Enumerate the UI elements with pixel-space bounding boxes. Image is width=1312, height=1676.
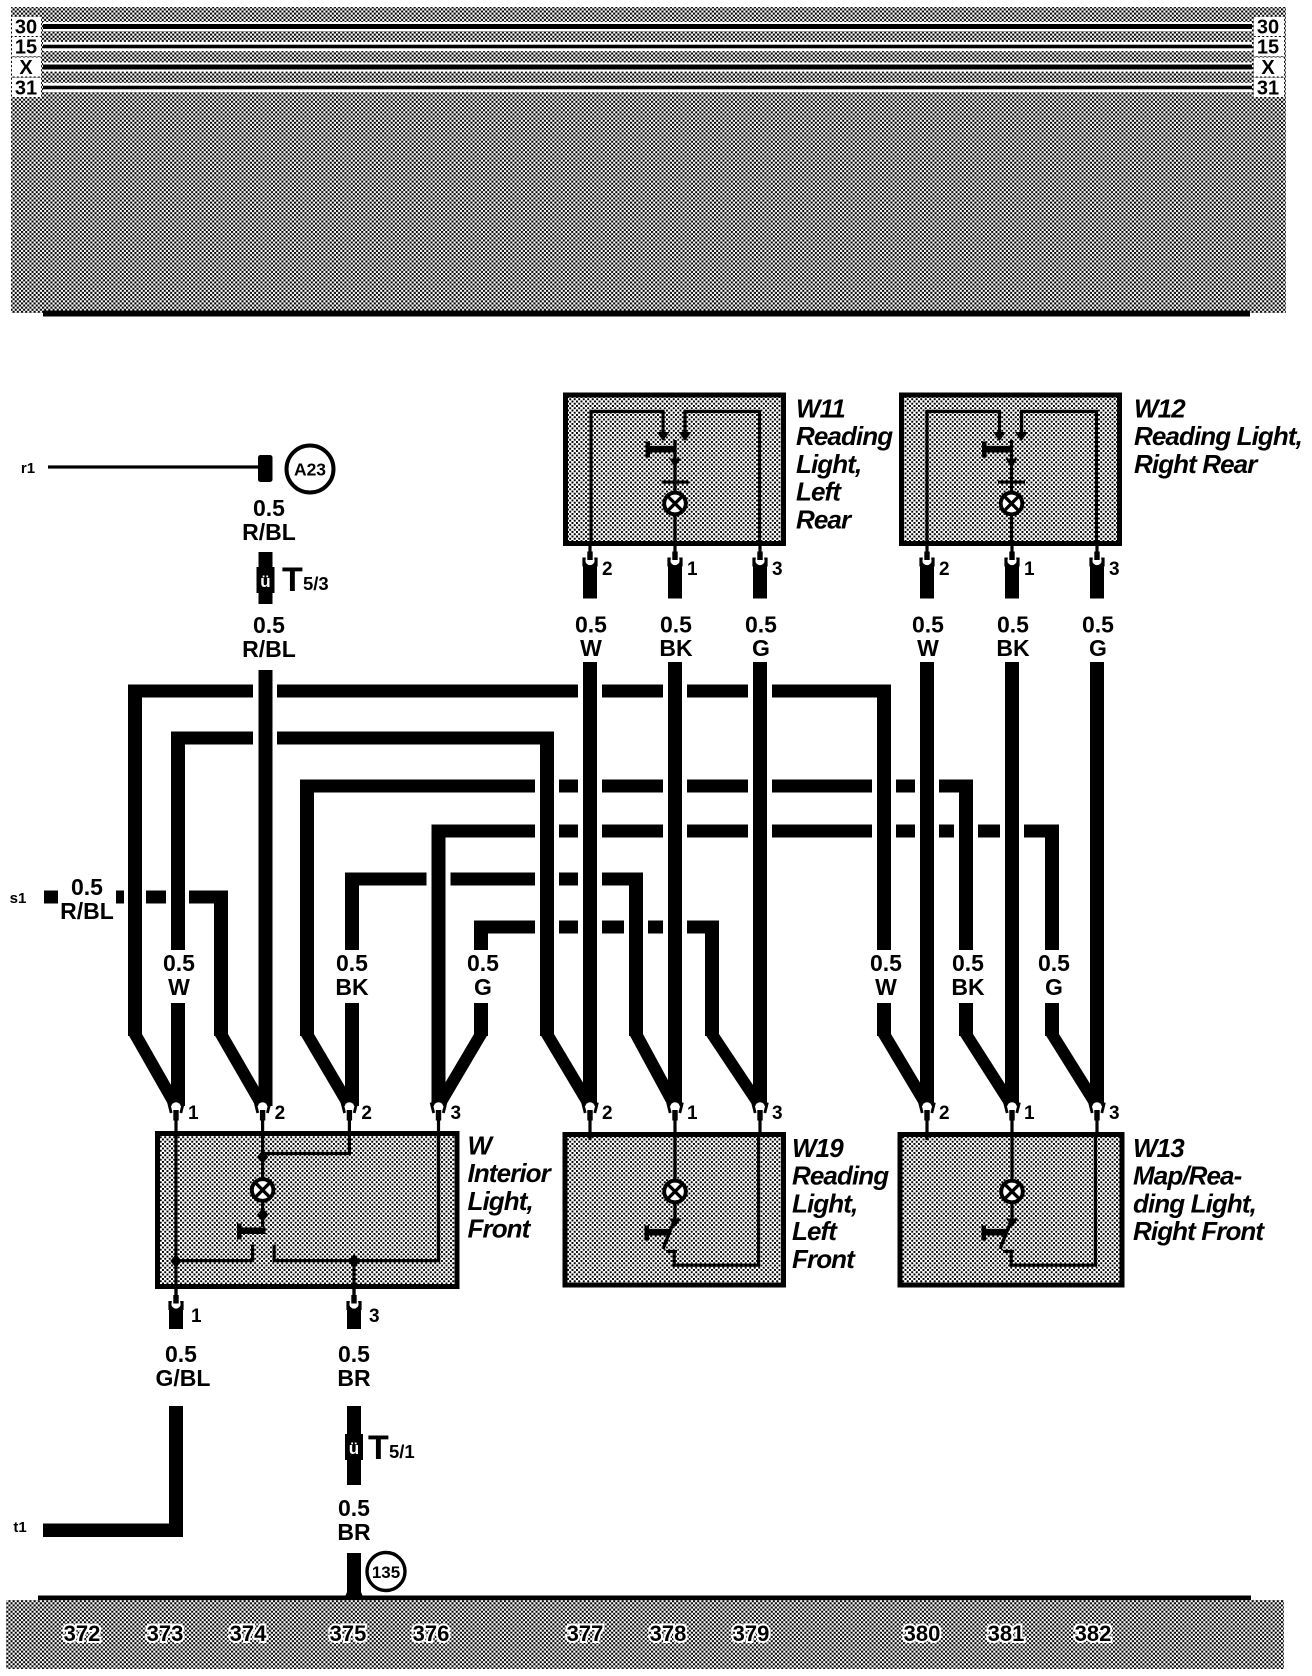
svg-text:0.5: 0.5 — [575, 612, 607, 638]
terminal label 31 (right) — [1254, 78, 1284, 97]
svg-text:15: 15 — [1257, 37, 1279, 59]
svg-text:30: 30 — [1257, 17, 1279, 39]
W19 lower contact — [666, 1250, 677, 1253]
wire B left vertical (label 0.5 W) straight into W pin 1 — [171, 732, 185, 951]
svg-text:3: 3 — [1109, 1103, 1120, 1124]
W internal: bottom rail left — [174, 1259, 254, 1262]
svg-text:381: 381 — [988, 1621, 1025, 1646]
pin 2 connector below lamp box at x=590 — [583, 563, 597, 599]
wire W11 pin2 - W19 pin2 (0.5 W) — [583, 662, 597, 1106]
pin 3 connector below lamp box at x=1097 — [1090, 563, 1104, 599]
pin 2 connector at x=262.6 — [258, 1102, 268, 1112]
wire W12 pin1 - W13 pin1 (0.5 BK) — [1005, 662, 1019, 1106]
svg-text:W: W — [580, 635, 602, 661]
svg-text:0.5: 0.5 — [165, 1341, 197, 1367]
svg-text:T: T — [368, 1429, 389, 1467]
svg-text:T: T — [282, 561, 303, 599]
svg-text:379: 379 — [733, 1621, 770, 1646]
pin 2 connector at x=927 — [922, 1102, 932, 1112]
wire W11 pin3 - W19 pin3 (0.5 G) — [753, 662, 767, 1106]
svg-text:Reading: Reading — [796, 421, 893, 451]
svg-text:Front: Front — [468, 1214, 532, 1244]
svg-text:0.5: 0.5 — [71, 874, 103, 900]
W internal: pin1-bottom lead — [174, 1262, 177, 1298]
svg-text:Reading: Reading — [792, 1161, 889, 1191]
svg-text:G: G — [474, 974, 492, 1000]
lamp unit W11 box — [566, 395, 784, 544]
svg-text:30: 30 — [15, 17, 37, 39]
wire E right vertical + angle into W19 pin 1 — [629, 873, 643, 1037]
svg-text:2: 2 — [939, 1103, 950, 1124]
lamp unit W12 box — [902, 395, 1120, 544]
track band top line — [38, 1596, 1251, 1601]
svg-text:135: 135 — [372, 1563, 400, 1582]
W19 lamp feed — [673, 1136, 676, 1182]
svg-text:G: G — [1045, 974, 1063, 1000]
svg-text:2: 2 — [275, 1103, 286, 1124]
wire 0.5 R/BL vertical from T5/3 into W pin 2 — [259, 670, 273, 1106]
svg-text:0.5: 0.5 — [1082, 612, 1114, 638]
pin 3 connector at x=760 — [755, 1102, 765, 1112]
lamp symbol W11 — [664, 493, 686, 515]
svg-text:W: W — [168, 974, 190, 1000]
wire F left vertical (label 0.5 G) + angle into W pin 3 — [474, 921, 488, 951]
band bottom border — [43, 311, 1250, 317]
svg-text:Light,: Light, — [792, 1188, 857, 1218]
svg-text:0.5: 0.5 — [997, 612, 1029, 638]
pin 1 connector below lamp box at x=675 — [668, 563, 682, 599]
pin 1 connector at x=675 — [670, 1102, 680, 1112]
W internal: pin1 drop — [174, 1136, 177, 1262]
terminal label 15 (left) — [12, 37, 41, 56]
W internal: lamp feed from pin 2 — [261, 1136, 264, 1227]
wire E left vertical (label 0.5 BK) straight into W pin 2 — [345, 873, 359, 951]
inline connector (r1 / A23) — [258, 455, 273, 482]
svg-text:R/BL: R/BL — [60, 898, 114, 924]
svg-text:378: 378 — [650, 1621, 687, 1646]
svg-text:W: W — [917, 635, 939, 661]
svg-text:Interior: Interior — [468, 1158, 553, 1188]
W internal: pin3 drop — [437, 1136, 440, 1262]
pin 2 connector below lamp box at x=927 — [920, 563, 934, 599]
W12 lamp feed wire — [1010, 440, 1013, 544]
svg-text:0.5: 0.5 — [338, 1495, 370, 1521]
wire W11 pin1 - W19 pin1 (0.5 BK) — [668, 662, 682, 1106]
terminal label 30 (right) — [1254, 17, 1284, 36]
svg-text:375: 375 — [330, 1621, 367, 1646]
svg-text:ding Light,: ding Light, — [1133, 1188, 1256, 1218]
svg-text:1: 1 — [1024, 559, 1035, 580]
s1 wire vertical + angle into W pin 2 — [214, 891, 228, 1037]
svg-text:W: W — [875, 974, 897, 1000]
ground point label 135 — [367, 1553, 405, 1591]
wire 0.5 BK (W pin2 - W13 pin1) horizontal run — [300, 780, 535, 793]
wire 0.5 BK (W pin2 - W19 pin1) horizontal run — [345, 873, 427, 886]
W internal: pin3-bottom junction — [348, 1254, 360, 1268]
wire F right vertical + angle into W19 pin 3 — [705, 921, 719, 1037]
bus line 30 — [43, 22, 1252, 31]
svg-text:G/BL: G/BL — [156, 1365, 211, 1391]
terminal label X (right) — [1254, 58, 1284, 77]
svg-text:R/BL: R/BL — [242, 636, 296, 662]
svg-text:5/3: 5/3 — [303, 573, 329, 594]
svg-text:0.5: 0.5 — [338, 1341, 370, 1367]
wire A left vertical + angle into W pin 1 — [128, 685, 142, 1037]
svg-text:2: 2 — [602, 559, 613, 580]
wire C right vertical (label 0.5 BK) + angle into W13 pin 1 — [959, 780, 973, 951]
W pin 1 bottom connector — [169, 1306, 183, 1329]
W13 switch blade — [1000, 1221, 1011, 1249]
svg-text:X: X — [19, 57, 33, 79]
svg-text:BR: BR — [337, 1519, 371, 1545]
svg-text:3: 3 — [772, 559, 783, 580]
W13 link to pin 3 — [1009, 1264, 1097, 1267]
svg-text:Left: Left — [792, 1216, 838, 1246]
svg-text:0.5: 0.5 — [253, 495, 285, 521]
svg-text:t1: t1 — [13, 1519, 26, 1536]
svg-text:1: 1 — [188, 1103, 199, 1124]
svg-text:BK: BK — [996, 635, 1030, 661]
W11 switch contact bar — [647, 446, 674, 453]
wire D right vertical (label 0.5 G) + angle into W13 pin 3 — [1045, 825, 1059, 951]
svg-text:ü: ü — [260, 572, 270, 591]
svg-text:Reading Light,: Reading Light, — [1134, 421, 1302, 451]
power rail band (top) — [11, 7, 1286, 313]
wire 0.5 G (W pin3 - W13 pin3) horizontal run — [432, 825, 536, 838]
W internal: bottom rail right — [273, 1259, 441, 1262]
bus line 15 — [43, 42, 1252, 51]
svg-text:Right Front: Right Front — [1133, 1216, 1265, 1246]
svg-text:Front: Front — [792, 1244, 856, 1274]
svg-text:1: 1 — [687, 559, 698, 580]
svg-text:0.5: 0.5 — [253, 612, 285, 638]
lamp symbol W19 — [664, 1181, 686, 1203]
svg-text:0.5: 0.5 — [1038, 950, 1070, 976]
svg-text:3: 3 — [451, 1103, 462, 1124]
svg-text:2: 2 — [939, 559, 950, 580]
svg-text:0.5: 0.5 — [952, 950, 984, 976]
svg-text:BK: BK — [335, 974, 369, 1000]
wire 0.5 BR upper segment — [347, 1406, 361, 1485]
svg-text:Right Rear: Right Rear — [1134, 449, 1259, 479]
pin 3 connector below lamp box at x=760 — [753, 563, 767, 599]
label A23 circle — [287, 446, 334, 493]
svg-text:382: 382 — [1075, 1621, 1112, 1646]
svg-text:31: 31 — [1257, 78, 1279, 100]
bus line X — [43, 62, 1252, 71]
svg-text:0.5: 0.5 — [163, 950, 195, 976]
W19 pin2 stub — [588, 1136, 591, 1140]
pin 1 connector at x=1012 — [1007, 1102, 1017, 1112]
wire W12 pin2 - W13 pin2 (0.5 W) — [920, 662, 934, 1106]
svg-text:0.5: 0.5 — [467, 950, 499, 976]
svg-text:374: 374 — [230, 1621, 267, 1646]
W switch contact bar — [239, 1228, 266, 1235]
reading light W13 box — [900, 1135, 1122, 1286]
wire C left vertical + angle into W pin 2 — [300, 780, 314, 1037]
wire 0.5 G/BL to t1 — [169, 1406, 183, 1537]
pin 1 connector at x=176 — [171, 1102, 181, 1112]
lamp symbol W — [252, 1179, 274, 1201]
wire 0.5 W (W pin1 - W19 pin2) horizontal run — [171, 732, 253, 745]
pin 2 connector at x=590 — [585, 1102, 595, 1112]
svg-text:Left: Left — [796, 477, 842, 507]
svg-text:0.5: 0.5 — [912, 612, 944, 638]
svg-text:BK: BK — [951, 974, 985, 1000]
bus line 31 — [43, 83, 1252, 92]
svg-text:G: G — [1089, 635, 1107, 661]
connector T5/1 — [345, 1434, 363, 1460]
wire W12 pin3 - W13 pin3 (0.5 G) — [1090, 662, 1104, 1106]
svg-text:372: 372 — [64, 1621, 101, 1646]
svg-text:W13: W13 — [1133, 1133, 1185, 1163]
wire r1 to connector — [48, 465, 260, 468]
W13 lamp feed — [1010, 1136, 1013, 1182]
svg-text:s1: s1 — [10, 890, 27, 907]
W12 switch contact bar — [984, 446, 1011, 453]
pin 3 connector at x=1097 — [1092, 1102, 1102, 1112]
W11 internal wiring — [589, 410, 592, 544]
W11 lamp feed wire — [673, 440, 676, 544]
svg-text:A23: A23 — [294, 460, 326, 480]
reading light W19 box — [565, 1135, 784, 1286]
terminal label X (left) — [12, 58, 41, 77]
svg-text:W12: W12 — [1134, 394, 1186, 424]
wire A right vertical (label 0.5 W) + angle into W13 pin 2 — [877, 685, 891, 951]
svg-text:Light,: Light, — [796, 449, 861, 479]
pin 3 connector at x=438.5 — [434, 1102, 444, 1112]
wire 0.5 G (W pin3 - W19 pin3) horizontal run — [474, 921, 535, 934]
svg-text:0.5: 0.5 — [660, 612, 692, 638]
W19 link to pin 3 — [672, 1264, 760, 1267]
svg-text:0.5: 0.5 — [336, 950, 368, 976]
pin 2 connector at x=349.4 — [345, 1102, 355, 1112]
wire 0.5 R/BL from s1 (interrupted) — [44, 891, 58, 904]
svg-text:377: 377 — [567, 1621, 604, 1646]
terminal label 30 (left) — [12, 17, 41, 36]
pin 1 connector below lamp box at x=1012 — [1005, 563, 1019, 599]
svg-text:BK: BK — [659, 635, 693, 661]
W pin 3 bottom connector — [347, 1306, 361, 1329]
svg-text:Map/Rea-: Map/Rea- — [1133, 1161, 1242, 1191]
W13 lower contact — [1003, 1250, 1014, 1253]
W internal: top link pin2-pin2 — [263, 1152, 351, 1155]
svg-text:2: 2 — [602, 1103, 613, 1124]
lamp symbol W12 — [1001, 493, 1023, 515]
svg-text:ü: ü — [349, 1439, 359, 1458]
W12 internal wiring — [925, 410, 928, 544]
svg-text:3: 3 — [1109, 559, 1120, 580]
svg-text:2: 2 — [361, 1103, 372, 1124]
svg-text:380: 380 — [904, 1621, 941, 1646]
svg-text:5/1: 5/1 — [389, 1441, 415, 1462]
lamp symbol W13 — [1001, 1181, 1023, 1203]
svg-text:1: 1 — [687, 1103, 698, 1124]
interior light W box — [158, 1134, 458, 1287]
connector T5/3 — [259, 552, 273, 604]
svg-text:W11: W11 — [796, 394, 845, 424]
svg-text:1: 1 — [1024, 1103, 1035, 1124]
svg-text:R/BL: R/BL — [242, 519, 296, 545]
terminal label 15 (right) — [1254, 37, 1284, 56]
svg-text:Rear: Rear — [796, 504, 853, 534]
current track band — [6, 1600, 1284, 1669]
svg-text:3: 3 — [369, 1306, 380, 1327]
wire B right vertical + angle into W19 pin 2 — [540, 732, 554, 1037]
svg-text:r1: r1 — [21, 460, 35, 477]
svg-text:X: X — [1261, 57, 1275, 79]
svg-text:1: 1 — [191, 1306, 202, 1327]
svg-text:W19: W19 — [792, 1133, 844, 1163]
wire 0.5 W (W pin1 - W13 pin2) horizontal run — [128, 685, 253, 698]
wire D left vertical straight into W pin 3 — [432, 825, 446, 1107]
svg-text:31: 31 — [15, 78, 37, 100]
svg-text:G: G — [752, 635, 770, 661]
svg-text:Light,: Light, — [468, 1186, 533, 1216]
terminal label 31 (left) — [12, 78, 41, 97]
W13 pin2 stub — [925, 1136, 928, 1140]
svg-text:W: W — [468, 1131, 495, 1161]
svg-text:0.5: 0.5 — [870, 950, 902, 976]
svg-text:BR: BR — [337, 1365, 371, 1391]
W19 switch blade — [663, 1221, 674, 1249]
wire 0.5 BR to ground track — [347, 1553, 361, 1602]
svg-text:0.5: 0.5 — [745, 612, 777, 638]
svg-text:15: 15 — [15, 37, 37, 59]
svg-text:376: 376 — [413, 1621, 450, 1646]
svg-text:3: 3 — [772, 1103, 783, 1124]
svg-text:373: 373 — [147, 1621, 184, 1646]
